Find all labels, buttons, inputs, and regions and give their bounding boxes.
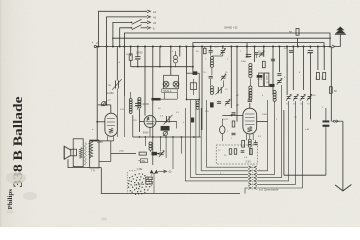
junction bus 17	[230, 46, 232, 48]
wire aerial riser 3	[113, 22, 131, 46]
label ifm2	[225, 72, 228, 74]
wire C2 lead	[137, 98, 139, 110]
wire v139	[139, 109, 141, 132]
connector pin L2	[248, 173, 251, 176]
label misc 35	[220, 173, 222, 175]
label misc 38	[322, 107, 324, 109]
varcap C15	[166, 116, 169, 123]
trimcap C6	[221, 74, 226, 80]
label 38a box	[138, 159, 147, 163]
switch S1	[131, 19, 142, 24]
wire v330 tall	[330, 47, 332, 122]
label R14	[227, 131, 229, 133]
label misc 34	[259, 170, 261, 172]
wire nest bottom	[245, 188, 248, 194]
wire nest right 3	[257, 85, 281, 178]
label T1	[97, 141, 103, 144]
junction bus 26	[297, 46, 299, 48]
junction bus 29	[317, 46, 319, 48]
label misc 14	[284, 77, 286, 79]
wire v297 resistor lead	[297, 38, 299, 46]
cap C12	[271, 59, 275, 61]
coil L5	[273, 91, 276, 102]
wire nest left 2	[196, 100, 248, 175]
lamp box	[164, 75, 179, 88]
wire nest right 1	[257, 100, 267, 171]
label misc 10	[227, 59, 229, 61]
label misc 4	[196, 51, 199, 53]
wire arrow3 seg	[141, 21, 148, 23]
connector pin L3	[248, 176, 251, 179]
label C2	[143, 104, 150, 106]
label misc 5	[215, 47, 218, 49]
junction bus 7	[144, 46, 146, 48]
junction avc b	[159, 66, 161, 68]
wire v199	[198, 100, 200, 138]
trimcap TC1	[286, 94, 291, 105]
junction bus 27	[303, 46, 305, 48]
wire v310b	[309, 53, 311, 119]
wire grid T1	[97, 121, 105, 123]
cap IF top	[193, 72, 197, 75]
ecap C-310	[307, 50, 313, 53]
label misc 7	[258, 51, 261, 53]
wire v97	[90, 47, 98, 141]
junction heater 3	[160, 136, 162, 138]
cap C22	[255, 53, 259, 58]
stub heater b	[160, 137, 162, 152]
label misc 9	[205, 59, 207, 61]
label misc 23	[294, 117, 297, 119]
wire bar down	[152, 100, 154, 104]
resistor R23 dark	[191, 118, 194, 122]
resistor R9	[316, 73, 320, 81]
trimcap C4	[220, 48, 225, 56]
connector bus end	[332, 45, 335, 48]
junction bus 20	[254, 46, 256, 48]
trimcap C10	[277, 78, 282, 84]
label sprechstelle	[259, 187, 279, 191]
label 7Tr	[91, 169, 95, 172]
coil L10	[196, 101, 199, 109]
resistor R3 dark	[210, 103, 213, 108]
speaker frame	[73, 139, 83, 167]
tube T2	[144, 116, 156, 128]
label misc 26	[120, 109, 125, 111]
wire row junction	[157, 153, 161, 155]
label misc 39	[299, 72, 301, 74]
label misc 3	[172, 51, 174, 53]
junction bus 21	[263, 46, 265, 48]
label A3	[153, 21, 157, 25]
connector pin R6	[254, 187, 257, 190]
label T2	[143, 133, 149, 135]
label misc 33	[218, 150, 221, 152]
wire v231	[230, 47, 232, 109]
wire v202	[201, 47, 203, 131]
label misc 37	[313, 95, 316, 97]
junction bus 8	[152, 46, 154, 48]
wire T1 top lead	[110, 105, 112, 113]
resistor R14	[232, 121, 235, 127]
wire v117	[116, 47, 118, 81]
connector dashed line	[252, 165, 254, 192]
label misc 31	[133, 120, 137, 122]
wire bar join	[160, 98, 177, 100]
varcap VC3	[216, 86, 225, 95]
ecap C2	[135, 103, 141, 106]
tube T3	[243, 108, 257, 134]
junction bus 28	[309, 46, 311, 48]
label R11	[334, 90, 337, 93]
label misc 20	[222, 119, 229, 121]
transformer winding 2	[89, 141, 93, 158]
wire diode join	[152, 173, 157, 193]
junction avc a	[137, 66, 139, 68]
cap C17	[232, 113, 236, 115]
junction bus 11	[179, 46, 181, 48]
label misc 11	[241, 61, 247, 63]
connector pin R2	[254, 173, 257, 176]
paper smudge 3	[6, 210, 14, 214]
label C15	[160, 116, 164, 118]
label 1W	[108, 85, 112, 87]
wire R1 bottom	[130, 60, 132, 66]
junction bus 12	[185, 46, 187, 48]
coil L1	[129, 92, 132, 113]
label misc 15	[196, 89, 198, 91]
cap T3 top	[248, 100, 252, 102]
wire v145	[144, 47, 146, 116]
stub heater c	[165, 137, 167, 158]
label misc 29	[176, 112, 180, 114]
junction bus 0	[98, 46, 100, 48]
wire inner box top	[193, 43, 324, 74]
junction IF br	[198, 99, 200, 101]
wire pot leads	[221, 119, 223, 141]
label misc 32	[224, 155, 227, 157]
label R17	[119, 151, 125, 153]
cap C21 dark	[323, 121, 329, 127]
junction bus 30	[323, 46, 325, 48]
label TR1	[106, 100, 111, 102]
coil L6	[138, 98, 141, 109]
wire nest right 4	[257, 101, 288, 181]
label T3b	[244, 157, 248, 159]
connector pin R1	[254, 170, 257, 173]
wire T3 top	[249, 103, 251, 108]
wire nest right 5	[257, 101, 295, 184]
wire main bus	[96, 46, 331, 48]
label misc 6	[240, 51, 242, 53]
wire v186	[185, 47, 187, 74]
resistor R12	[242, 141, 245, 148]
scan left edge	[0, 0, 1, 227]
wire speaker bottom	[68, 159, 101, 167]
junction bus 16	[222, 46, 224, 48]
title 338 B Ballade	[10, 96, 25, 187]
junction avc c	[170, 66, 172, 68]
wire rail y38	[112, 37, 331, 39]
resistor R11	[329, 87, 332, 94]
coil L2	[210, 57, 213, 68]
junction heater 4	[165, 136, 167, 138]
resistor R18	[146, 177, 153, 180]
wire v152	[152, 47, 154, 166]
label misc 30	[183, 122, 185, 124]
junction bus 14	[201, 46, 203, 48]
wire nest right 2	[257, 102, 274, 175]
trimcap C8	[225, 99, 230, 105]
wire v324	[323, 47, 325, 71]
wire v273	[272, 47, 274, 96]
junction bus 10	[170, 46, 172, 48]
junction bus 9	[160, 46, 162, 48]
wire v263	[263, 47, 265, 58]
big arrow down	[335, 185, 351, 191]
wire T1 pins	[90, 136, 114, 141]
pot oval	[220, 126, 225, 134]
junction heater 1	[144, 136, 146, 138]
trimcap TC2	[293, 94, 298, 105]
box dashed output	[216, 145, 257, 164]
label A1	[153, 10, 157, 14]
wire heater rail up	[132, 115, 134, 137]
label ifm1	[203, 72, 206, 74]
cap C16	[254, 140, 258, 144]
wire nest left 1	[201, 108, 248, 171]
wire c56 joins	[211, 79, 224, 86]
resistor R15	[229, 149, 232, 155]
wire nest right 6	[257, 101, 302, 188]
wire v254	[254, 47, 256, 63]
label misc 1	[117, 62, 121, 64]
choke CH2	[264, 73, 269, 87]
title Philips	[7, 188, 14, 209]
wire c4 link	[212, 55, 223, 57]
paper smudge 2	[101, 217, 107, 220]
resistor R19	[146, 182, 153, 185]
cap C11	[289, 51, 293, 53]
junction bus 3	[119, 46, 121, 48]
wire heater rail	[133, 136, 201, 138]
arrow aerial 2	[147, 16, 151, 19]
label 38a	[137, 169, 143, 171]
node bus start	[92, 41, 100, 47]
wire T2 left	[140, 121, 145, 123]
connector pin R0	[254, 166, 257, 169]
label A2	[153, 15, 157, 19]
coil L7	[248, 139, 251, 147]
wire nest left 0	[207, 100, 249, 167]
connector pin R3	[254, 176, 257, 179]
wire ground rail	[284, 110, 326, 175]
tube T1	[105, 113, 117, 136]
junction bus 2	[112, 46, 114, 48]
label misc 24	[231, 138, 233, 140]
wire T2 right	[156, 121, 177, 123]
junction bus 4	[123, 46, 125, 48]
label misc 12	[266, 73, 269, 75]
cap C3	[209, 51, 213, 56]
stub T2 bottom	[149, 127, 151, 137]
resistor R16	[234, 149, 237, 155]
wire v130	[130, 47, 132, 57]
coil IF inner	[190, 79, 196, 95]
arrow aerial 4	[147, 26, 151, 29]
speaker zigzag	[79, 148, 82, 159]
label 2xx	[246, 161, 252, 164]
wire v303	[303, 47, 305, 91]
label misc 21	[262, 114, 268, 116]
junction bus 1	[106, 46, 108, 48]
wire out h	[331, 120, 343, 122]
junction bus 31	[329, 46, 331, 48]
wire v210	[210, 47, 212, 50]
junction heater 6	[181, 136, 183, 138]
transformer frame	[90, 140, 99, 168]
wire avc y66	[131, 66, 194, 68]
label misc 8	[284, 48, 287, 50]
cap C5	[209, 76, 213, 78]
label misc 25	[258, 136, 262, 138]
paper smudge 1	[6, 172, 37, 200]
trimmer TR1	[101, 101, 106, 106]
resistor R4	[262, 61, 265, 68]
wire v310	[309, 47, 311, 49]
transformer winding 1	[84, 143, 86, 165]
wire T3 anode	[257, 121, 268, 123]
label misc 27	[92, 129, 94, 131]
band switch dashes	[127, 171, 151, 194]
junction bus 18	[236, 46, 238, 48]
wire v176	[176, 122, 178, 129]
connector pin L6	[248, 187, 251, 190]
junction bus 13	[193, 46, 195, 48]
label C1	[136, 52, 143, 54]
wire v124 low	[123, 47, 125, 138]
band switch dotted wafer	[128, 173, 151, 195]
wire aerial riser 2	[107, 17, 147, 47]
junction heater 0	[139, 136, 141, 138]
junction bus 6	[137, 46, 139, 48]
label T2 box	[161, 126, 169, 130]
resistor R22 dark	[152, 152, 157, 155]
label ohne	[224, 26, 238, 30]
wire arrow4 seg	[141, 27, 148, 29]
stub heater e	[180, 137, 182, 154]
trimcap C24	[259, 51, 264, 57]
resistor R10	[322, 73, 326, 81]
trimcap TC3	[300, 94, 305, 105]
antenna	[335, 27, 346, 35]
choke CH1	[257, 73, 263, 87]
connector out	[333, 120, 338, 123]
trimcap C25	[159, 151, 164, 157]
resistor R2	[204, 47, 207, 54]
stub heater a	[144, 137, 146, 146]
wire T3 pins	[247, 134, 254, 140]
wire lamps down	[165, 93, 178, 99]
connector pin R5	[254, 183, 257, 186]
resistor R1	[129, 54, 132, 60]
wire v137	[137, 47, 139, 57]
wire aerial riser 1	[99, 11, 147, 46]
connector pin L0	[248, 166, 251, 169]
label T3	[236, 104, 240, 107]
label R-rail	[289, 30, 292, 34]
label skala box	[162, 89, 177, 93]
resistor dark bar	[152, 98, 161, 100]
switch S2	[131, 25, 142, 30]
wire v247	[246, 43, 248, 58]
junction bus 5	[130, 46, 132, 48]
wire nest left 3	[191, 100, 248, 178]
label misc 19	[205, 111, 209, 113]
IF can	[187, 73, 200, 99]
diode D1	[150, 170, 154, 174]
label misc 22	[276, 119, 278, 121]
ecap C1	[135, 57, 141, 60]
wire v237	[236, 47, 238, 122]
junction bus 24	[286, 46, 288, 48]
cap C9	[277, 74, 281, 76]
junction heater 5	[172, 136, 174, 138]
wire big arrow v	[342, 121, 344, 190]
wire T3 grid	[222, 115, 243, 117]
junction v97 grid	[96, 121, 98, 123]
wire to bottom rail	[101, 168, 240, 194]
cap C7	[217, 102, 221, 104]
label misc 2	[159, 51, 161, 53]
label misc 16	[225, 89, 228, 91]
wire v179	[179, 47, 181, 57]
wire bus to antenna	[335, 35, 340, 47]
coil L3	[210, 86, 213, 95]
lamp LP1	[163, 81, 169, 87]
coil L9	[149, 142, 152, 152]
wire C21 leads	[325, 108, 327, 175]
diode D2	[155, 170, 159, 174]
wire T1 center pin	[99, 141, 136, 162]
junction bus 25	[292, 46, 294, 48]
connector pin R4	[254, 180, 257, 183]
wire plus25	[158, 170, 172, 174]
connector pin L1	[248, 170, 251, 173]
wire v106	[106, 47, 108, 105]
arrow aerial 3	[147, 21, 151, 24]
label misc 13	[257, 79, 260, 81]
label VC1	[107, 92, 114, 95]
resistor R-rail	[296, 28, 299, 35]
varcap VC1	[112, 79, 121, 137]
label misc 18	[262, 95, 264, 97]
speaker coil box	[71, 149, 77, 156]
coil L4	[249, 64, 252, 101]
lamp LP2	[173, 81, 179, 87]
resistor R17	[139, 152, 146, 155]
trim arrow T2	[164, 115, 173, 125]
connector pin L4	[248, 180, 251, 183]
junction heater 2	[152, 136, 154, 138]
wire v279	[278, 47, 280, 73]
junction bus 23	[278, 46, 280, 48]
wire v293	[292, 47, 294, 91]
wire T1 top h	[98, 104, 111, 106]
wire L2 down	[211, 68, 213, 75]
connector pin L5	[248, 183, 251, 186]
junction bus 19	[246, 46, 248, 48]
